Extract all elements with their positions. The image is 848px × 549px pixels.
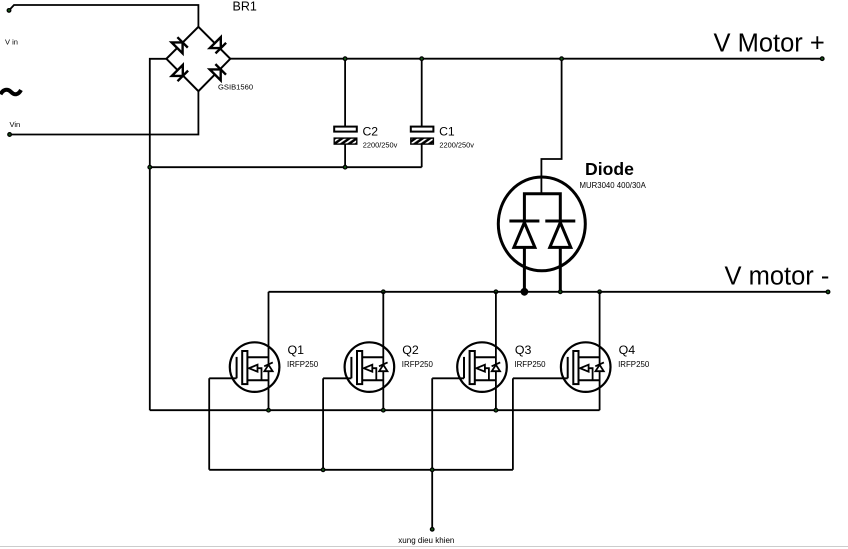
node xung dieu khien terminal — [430, 528, 434, 532]
svg-text:xung dieu khien: xung dieu khien — [398, 536, 454, 545]
node Vin terminal — [8, 133, 12, 137]
svg-text:MUR3040 400/30A: MUR3040 400/30A — [580, 181, 647, 190]
junction Q3 drain on - rail — [494, 290, 498, 294]
diode BR1 lower-right — [210, 64, 226, 80]
junction on + rail at C2 — [343, 57, 347, 61]
wire: Q2 gate lead — [323, 377, 351, 379]
diode module U1 circle — [498, 177, 585, 271]
node V motor - terminal — [826, 290, 830, 294]
svg-text:C1: C1 — [439, 125, 455, 139]
svg-text:V motor -: V motor - — [725, 263, 830, 291]
capacitor C1 — [411, 59, 434, 168]
wire: bottom AC lead from Vin terminal to bridge bottom — [10, 91, 199, 134]
wire: Q3 drain-source vertical — [495, 292, 497, 410]
svg-text:Q2: Q2 — [402, 343, 419, 357]
wire: feed from + rail to diode module — [541, 59, 561, 194]
svg-text:2200/250v: 2200/250v — [439, 140, 474, 149]
wire: gate bus — [209, 469, 513, 471]
junction gate bus at Q2 — [321, 468, 325, 472]
transistor Q4 — [561, 342, 611, 392]
svg-text:GSIB1560: GSIB1560 — [218, 83, 253, 92]
svg-text:2200/250v: 2200/250v — [363, 140, 398, 149]
svg-text:IRFP250: IRFP250 — [514, 360, 546, 369]
wire: Q4 gate lead — [513, 377, 568, 379]
svg-text:V in: V in — [5, 38, 18, 47]
wire: Q2 drain-source vertical — [382, 292, 384, 410]
svg-text:C2: C2 — [363, 125, 379, 139]
svg-text:IRFP250: IRFP250 — [287, 360, 319, 369]
junction Q1 source on source rail — [267, 408, 271, 412]
capacitor C2 — [334, 59, 357, 168]
wire: diode right anode lead — [559, 247, 562, 291]
transistor Q3 — [457, 342, 507, 392]
wire: Q1 drain-source vertical — [268, 292, 270, 410]
svg-text:BR1: BR1 — [233, 0, 257, 14]
junction diode left lead on - rail (black) — [521, 288, 528, 295]
junction diode right lead on - rail — [559, 290, 563, 294]
wire: Q1 gate lead — [209, 377, 236, 379]
junction left end of cap rail — [148, 165, 152, 169]
wire: Q4 gate drop — [512, 378, 514, 470]
transistor Q2 — [345, 342, 395, 392]
svg-text:IRFP250: IRFP250 — [618, 360, 650, 369]
diode BR1 lower-left — [172, 65, 188, 81]
diode BR1 upper-right — [210, 37, 226, 53]
junction Q4 drain on - rail — [598, 290, 602, 294]
svg-text:Q3: Q3 — [515, 343, 532, 357]
wire: capacitor bottom rail — [150, 166, 422, 168]
junction Q3 source on source rail — [494, 408, 498, 412]
junction gate bus at control lead — [430, 468, 434, 472]
diode BR1 upper-left — [172, 37, 188, 53]
wire: source rail — [150, 409, 600, 411]
wire: Q3 gate lead — [432, 377, 464, 379]
AC source symbol ~ — [1, 90, 22, 95]
window edge line at bottom — [0, 546, 848, 548]
wire: Q1 gate drop — [208, 378, 210, 470]
wire: diode left anode lead — [523, 247, 526, 291]
wire: Q4 drain-source vertical — [599, 292, 601, 410]
wire: V motor - rail — [269, 291, 831, 293]
bridge rectifier BR1 diamond — [166, 27, 230, 91]
svg-text:IRFP250: IRFP250 — [402, 360, 434, 369]
junction on + rail at C1 — [420, 57, 424, 61]
wire: Q2 gate drop — [322, 378, 324, 470]
junction on + rail at diode feed — [560, 57, 564, 61]
junction cap rail at C2 — [343, 165, 347, 169]
diode D-right triangle — [550, 223, 571, 248]
svg-text:Vin: Vin — [10, 120, 21, 129]
diode D-left triangle — [514, 223, 535, 248]
transistor Q1 — [230, 342, 280, 392]
wire: top AC lead from V in terminal to bridge top — [9, 5, 198, 27]
diode D-right cathode bar — [545, 220, 575, 223]
wire: V Motor + rail — [230, 58, 822, 60]
svg-text:Diode: Diode — [585, 159, 634, 179]
svg-text:V Motor +: V Motor + — [714, 29, 825, 57]
diode D-left cathode bar — [509, 220, 539, 223]
svg-text:Q4: Q4 — [619, 343, 636, 357]
svg-text:Q1: Q1 — [288, 343, 305, 357]
node V Motor + terminal — [820, 57, 824, 61]
junction Q2 source on source rail — [382, 408, 386, 412]
diode module top bar — [524, 194, 560, 221]
wire: Q3 gate drop and control lead — [431, 378, 433, 529]
wire: bridge left vertex down the left side to source rail — [150, 59, 167, 410]
node V in terminal — [7, 9, 11, 13]
junction Q2 drain on - rail — [382, 290, 386, 294]
